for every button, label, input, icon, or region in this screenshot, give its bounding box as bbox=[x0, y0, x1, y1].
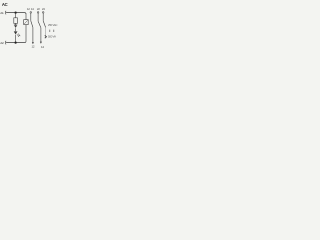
terminal circle A1 bbox=[4, 11, 7, 15]
svg-text:A2: A2 bbox=[0, 41, 4, 45]
wire contact 1 down bbox=[32, 27, 34, 42]
footnote marks bbox=[49, 30, 50, 32]
node junction bottom bbox=[14, 41, 16, 43]
wire pin 14 bbox=[37, 13, 39, 21]
terminal circle pin 12 bbox=[30, 12, 32, 14]
wire pin 12 bbox=[30, 13, 32, 21]
LED D2 bbox=[14, 31, 17, 33]
arrow contact 1 bbox=[32, 42, 34, 44]
arrow contact 2 bbox=[40, 42, 42, 44]
wire pin 24 bbox=[42, 13, 44, 21]
node junction top bbox=[14, 11, 16, 13]
wire bbox=[15, 28, 17, 31]
wire contact 2 down bbox=[40, 28, 42, 42]
terminal circle A2 bbox=[4, 41, 7, 45]
diode D1 bbox=[14, 24, 17, 26]
background bbox=[0, 0, 60, 50]
svg-text:500 VA: 500 VA bbox=[48, 35, 56, 39]
wire top rail bbox=[6, 13, 26, 14]
LED arrows bbox=[17, 34, 19, 36]
wire bottom rail bbox=[6, 42, 25, 44]
terminal circle pin 14 bbox=[37, 12, 39, 14]
wire bbox=[15, 35, 17, 43]
wire branch down bbox=[15, 13, 17, 18]
wire bbox=[15, 23, 17, 25]
wire coil branch bbox=[25, 14, 26, 43]
contact arm 3 bbox=[43, 21, 45, 28]
resistor R1 bbox=[14, 18, 18, 24]
contact arm 1 bbox=[31, 21, 33, 28]
svg-text:A1: A1 bbox=[0, 11, 4, 15]
svg-text:AC: AC bbox=[2, 2, 8, 7]
svg-text:250 VAC: 250 VAC bbox=[48, 23, 57, 27]
terminal circle pin 24 bbox=[42, 12, 44, 14]
contact arm 2 bbox=[38, 21, 41, 28]
arrow contact 3 bbox=[45, 35, 47, 38]
relay coil K1 bbox=[24, 20, 29, 25]
wire contact 3 down bbox=[45, 27, 47, 35]
